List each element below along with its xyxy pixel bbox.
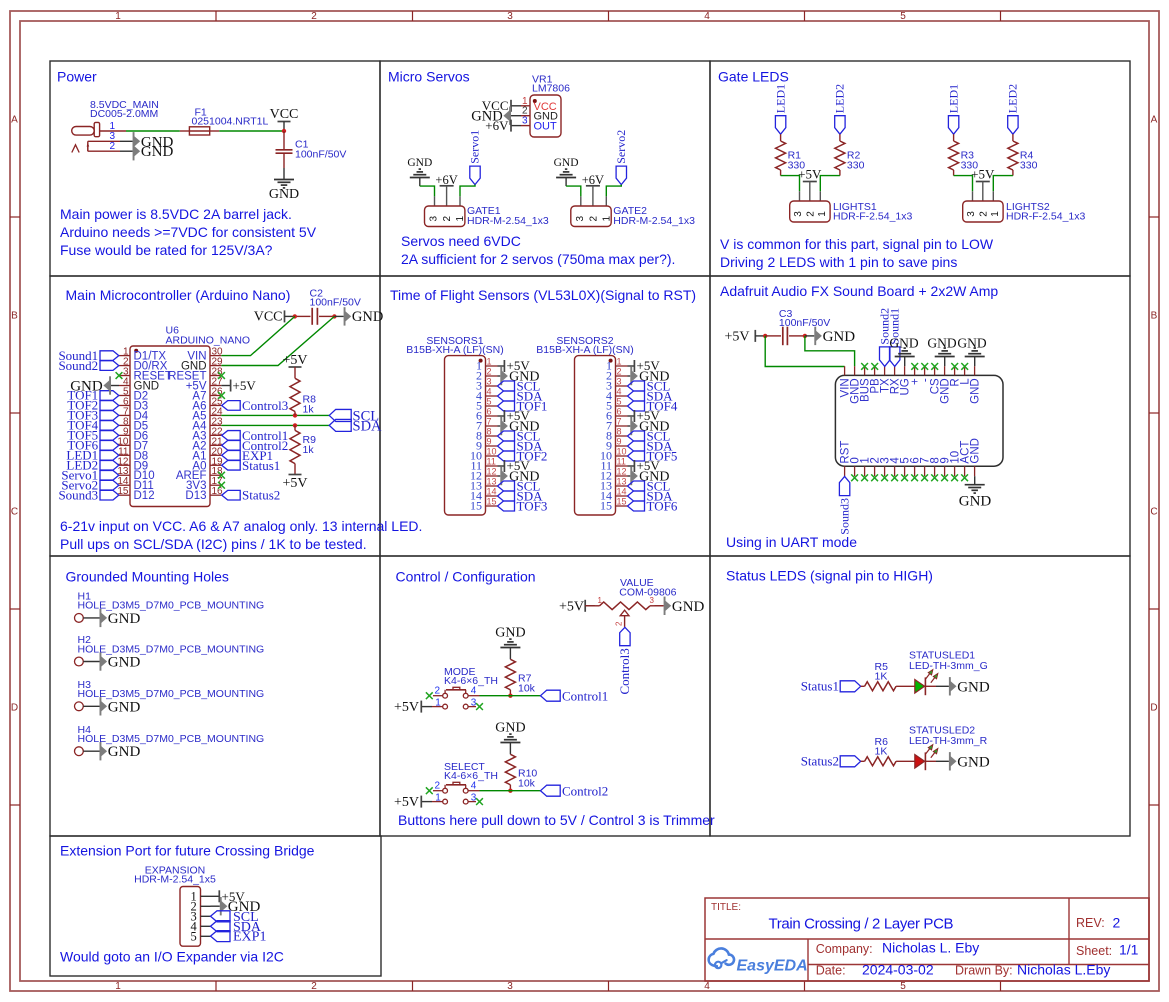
svg-text:4: 4: [487, 387, 492, 397]
net flag Control1: [541, 690, 561, 701]
top pin BUS of U1: [864, 366, 866, 375]
wire R4 to LIGHTS2 pin1: [993, 176, 1013, 192]
svg-text:GND: GND: [554, 157, 579, 169]
net flag SDA SENSORS1 g1: [498, 391, 515, 401]
junction GND C2: [332, 314, 336, 318]
net flag Status1: [222, 460, 241, 470]
svg-text:D: D: [1150, 703, 1157, 714]
pin 28 RESET of U6: [210, 375, 221, 377]
svg-text:C: C: [1150, 507, 1157, 518]
pin1 stub MODE to +5V: [432, 706, 443, 708]
LED STATUSLED2 LED-TH-3mm_R: [909, 725, 988, 771]
pin 18 AREF of U6: [210, 474, 221, 476]
wire gnd to GATE1 pin3: [420, 186, 435, 196]
net flag SCL SENSORS2 g1: [628, 381, 645, 391]
svg-text:9: 9: [617, 437, 622, 447]
svg-text:5: 5: [191, 930, 197, 944]
pin 22 A3 of U6: [210, 434, 221, 436]
pin 5 of SENSORS2: [616, 405, 628, 407]
pin 15 D12 of U6: [119, 494, 130, 496]
connector LIGHTS2 HDR-F-2.54_1x3: [963, 201, 1086, 223]
wire R2 to LIGHTS1 pin1: [820, 176, 840, 192]
svg-text:GND: GND: [970, 438, 982, 464]
no-connect X bottom: [921, 474, 928, 481]
resistor R8 1k: [294, 367, 296, 378]
svg-text:TOF6: TOF6: [647, 499, 678, 514]
svg-text:Status1: Status1: [801, 679, 839, 694]
junction C3 right: [803, 334, 807, 338]
ground flag SENSORS2 group3: [628, 475, 631, 477]
net flag Control3 at pin25: [222, 401, 241, 411]
svg-text:Control2: Control2: [562, 783, 608, 798]
pin 2 of SENSORS1: [486, 375, 498, 377]
svg-text:3: 3: [522, 116, 528, 127]
svg-text:C: C: [11, 507, 18, 518]
svg-text:2: 2: [588, 216, 599, 222]
pin 10 D7 of U6: [119, 444, 130, 446]
wire H2 to gnd: [83, 661, 99, 663]
svg-text:7: 7: [487, 417, 492, 427]
capacitor C1 100nF/50V: [276, 131, 347, 168]
power flag +5V below R9: [289, 474, 302, 476]
svg-text:2: 2: [442, 216, 453, 222]
ground flag STATUSLED2: [949, 752, 990, 770]
pin 8 of SENSORS1: [486, 435, 498, 437]
svg-text:GND: GND: [823, 329, 856, 345]
svg-text:GND: GND: [970, 378, 982, 404]
svg-text:+5V: +5V: [282, 353, 307, 368]
pin 4 of SENSORS2: [616, 395, 628, 397]
svg-text:12: 12: [487, 467, 497, 477]
ground symbol below C1: [274, 180, 294, 188]
svg-text:13: 13: [617, 477, 627, 487]
power flag +5V at EXPANSION pin1: [211, 895, 220, 897]
svg-text:GND: GND: [269, 187, 299, 202]
svg-text:2A sufficient for 2 servos (75: 2A sufficient for 2 servos (750ma max pe…: [401, 251, 675, 267]
ground flag at J1 pin 2: [133, 142, 174, 160]
net flag Control2: [222, 441, 241, 451]
resistor R3 330: [949, 141, 959, 170]
svg-text:12: 12: [617, 467, 627, 477]
svg-text:15: 15: [487, 497, 497, 507]
svg-text:8: 8: [617, 427, 622, 437]
no-connect X bottom: [901, 474, 908, 481]
svg-text:TITLE:: TITLE:: [711, 902, 741, 913]
svg-text:4: 4: [704, 11, 710, 22]
net flag Servo2: [100, 480, 119, 490]
ground symbol top: [944, 357, 946, 367]
pin 11 of SENSORS2: [616, 465, 628, 467]
svg-text:7: 7: [617, 417, 622, 427]
svg-text:Sound3: Sound3: [58, 487, 98, 502]
wire A4 to SDA: [221, 424, 329, 426]
no-connect X bottom: [961, 474, 968, 481]
svg-text:GND: GND: [108, 611, 141, 627]
net flag SCL SENSORS2 g2: [628, 431, 645, 441]
bottom pin 10 of U1: [954, 466, 956, 476]
svg-text:Servo2: Servo2: [614, 130, 628, 164]
svg-text:HOLE_D3M5_D7M0_PCB_MOUNTING: HOLE_D3M5_D7M0_PCB_MOUNTING: [78, 688, 265, 700]
svg-text:HDR-F-2.54_1x3: HDR-F-2.54_1x3: [1006, 211, 1086, 223]
mounting hole H1: [75, 591, 265, 623]
svg-text:11: 11: [487, 457, 496, 467]
svg-text:Status2: Status2: [242, 488, 280, 503]
svg-text:+5V: +5V: [394, 700, 419, 715]
pin 5 of EXPANSION: [201, 935, 211, 937]
svg-text:1: 1: [817, 211, 828, 217]
svg-text:2: 2: [615, 621, 624, 626]
connector EXPANSION HDR-M-2.54_1x5: [134, 865, 216, 947]
svg-text:+5V: +5V: [971, 167, 995, 182]
svg-text:0251004.NRT1L: 0251004.NRT1L: [192, 116, 269, 128]
net flag TOF2 SENSORS1: [498, 451, 515, 461]
pin 10 of SENSORS1: [486, 455, 498, 457]
svg-text:GND: GND: [141, 144, 174, 160]
svg-text:5: 5: [487, 397, 492, 407]
wire LED2 to R2: [839, 134, 841, 141]
junction node VCC: [282, 129, 286, 133]
pin 1 D1/TX of U6: [119, 355, 130, 357]
svg-text:Status2: Status2: [801, 754, 839, 769]
resistor R10 10k: [505, 754, 515, 785]
svg-text:15: 15: [470, 499, 482, 513]
wire LED to gnd: [925, 685, 936, 687]
no-connect X top: [861, 363, 868, 370]
wire LED2 to R4: [1012, 134, 1014, 141]
no-connect X bottom: [951, 474, 958, 481]
pin 2 D0/RX of U6: [119, 365, 130, 367]
top pin R of U1: [954, 366, 956, 375]
svg-text:4: 4: [471, 781, 477, 792]
net flag LED1: [775, 116, 785, 135]
pin 16 D13 of U6: [210, 494, 221, 496]
top pin RX of U1: [894, 366, 896, 375]
bottom pin 2 of U1: [874, 466, 876, 476]
pin 8 of SENSORS2: [616, 435, 628, 437]
pin 8 D5 of U6: [119, 424, 130, 426]
connector SENSORS2 B15B-XH-A: [536, 335, 633, 515]
net flag LED1: [948, 116, 958, 135]
junction R9 SDA: [293, 423, 297, 427]
svg-text:D: D: [11, 703, 18, 714]
svg-text:GND: GND: [407, 157, 432, 169]
bottom pin 3 of U1: [884, 466, 886, 476]
net flag LED2: [100, 460, 119, 470]
wire C1 to ground: [283, 168, 285, 180]
pin 13 of SENSORS2: [616, 485, 628, 487]
svg-text:1: 1: [115, 981, 121, 992]
svg-text:3: 3: [507, 11, 513, 22]
svg-text:GND: GND: [108, 654, 141, 670]
svg-text:Nicholas L.Eby: Nicholas L.Eby: [1017, 962, 1110, 978]
net flag TOF3 SENSORS1: [498, 501, 515, 511]
pin 3 of SENSORS1: [486, 385, 498, 387]
no-connect X at pin28: [218, 372, 225, 379]
svg-text:HDR-M-2.54_1x3: HDR-M-2.54_1x3: [613, 215, 695, 227]
svg-text:1: 1: [455, 216, 466, 222]
svg-text:10k: 10k: [518, 683, 536, 695]
svg-text:Date:: Date:: [816, 964, 846, 978]
net flag Control1: [222, 431, 241, 441]
svg-text:GND: GND: [108, 699, 141, 715]
wire LED to gnd: [925, 760, 936, 762]
resistor R6 1K: [865, 757, 897, 766]
svg-text:2: 2: [311, 981, 317, 992]
svg-text:Status LEDS (signal pin to HIG: Status LEDS (signal pin to HIGH): [726, 568, 933, 584]
top pin GND of U1: [974, 366, 976, 375]
net flag Sound1: [890, 347, 900, 367]
pin 6 of SENSORS1: [486, 415, 498, 417]
no-connect X bottom: [891, 474, 898, 481]
net flag SCL: [329, 409, 351, 421]
bottom pin 7 of U1: [924, 466, 926, 476]
pin 3 of EXPANSION: [201, 915, 211, 917]
ground flag at trimmer: [655, 605, 664, 607]
svg-text:1K: 1K: [875, 746, 888, 758]
svg-text:Sound2: Sound2: [58, 358, 98, 373]
resistor R1 330: [776, 141, 786, 170]
svg-text:15: 15: [600, 499, 612, 513]
svg-text:Pull ups on SCL/SDA (I2C) pins: Pull ups on SCL/SDA (I2C) pins / 1K to b…: [60, 536, 367, 552]
svg-text:EasyEDA: EasyEDA: [737, 958, 808, 975]
svg-text:11: 11: [617, 457, 626, 467]
pin 6 of SENSORS2: [616, 415, 628, 417]
bottom pin 0 of U1: [854, 466, 856, 476]
pin 17 3V3 of U6: [210, 484, 221, 486]
svg-text:GND: GND: [957, 335, 986, 350]
pin 4 GND of U6: [119, 385, 130, 387]
svg-text:Using in UART mode: Using in UART mode: [726, 534, 857, 550]
net flag LED2: [1008, 116, 1018, 135]
net flag TOF5 SENSORS2: [628, 451, 645, 461]
pin 12 of SENSORS2: [616, 475, 628, 477]
pin2 stub MODE: [433, 695, 443, 697]
pin 3 OUT of VR1: [521, 125, 530, 127]
pin 14 D11 of U6: [119, 484, 130, 486]
ground flag H2: [100, 652, 141, 670]
svg-text:LED2: LED2: [1006, 84, 1020, 113]
ground flag H3: [100, 697, 141, 715]
svg-text:Grounded Mounting Holes: Grounded Mounting Holes: [66, 569, 229, 585]
IC U6 ARDUINO_NANO: [130, 325, 250, 507]
svg-text:A: A: [11, 115, 18, 126]
pin 1 of J1: [100, 130, 126, 132]
pin 5 D2 of U6: [119, 394, 130, 396]
svg-text:+5V: +5V: [282, 476, 307, 491]
svg-text:4: 4: [704, 981, 710, 992]
svg-text:Time of Flight Sensors (VL53L0: Time of Flight Sensors (VL53L0X)(Signal …: [390, 287, 696, 303]
svg-text:GND: GND: [70, 378, 103, 394]
svg-text:1k: 1k: [303, 404, 315, 416]
svg-text:13: 13: [487, 477, 497, 487]
svg-text:2: 2: [1113, 915, 1121, 931]
svg-text:3: 3: [429, 216, 440, 222]
svg-text:1: 1: [990, 211, 1001, 217]
bottom pin 8 of U1: [934, 466, 936, 476]
net flag Sound1: [100, 351, 119, 361]
svg-text:D13: D13: [185, 490, 206, 502]
svg-text:REV:: REV:: [1076, 916, 1105, 930]
svg-text:5: 5: [617, 397, 622, 407]
pin 11 D8 of U6: [119, 454, 130, 456]
svg-text:HDR-M-2.54_1x3: HDR-M-2.54_1x3: [467, 215, 549, 227]
ground symbol top: [904, 357, 906, 367]
svg-text:Fuse would be rated for 125V/3: Fuse would be rated for 125V/3A?: [60, 242, 273, 258]
power flag +5V SENSORS2 group1: [628, 365, 635, 367]
svg-text:3: 3: [650, 596, 655, 605]
svg-text:LED1: LED1: [946, 84, 960, 113]
svg-text:4: 4: [471, 686, 477, 697]
wire H3 to gnd: [83, 705, 99, 707]
wire R3 to LIGHTS2 pin3: [954, 176, 973, 192]
svg-text:2: 2: [434, 780, 440, 791]
net flag SDA SENSORS2 g3: [628, 491, 645, 501]
net flag SDA SENSORS1 g2: [498, 441, 515, 451]
power flag +5V SENSORS1 group3: [498, 465, 505, 467]
pin 5 of SENSORS1: [486, 405, 498, 407]
svg-text:1: 1: [115, 11, 121, 22]
net flag Control2: [541, 785, 561, 796]
svg-text:Adafruit Audio FX Sound Board: Adafruit Audio FX Sound Board + 2x2W Amp: [720, 283, 998, 299]
pin 30 VIN of U6: [210, 355, 221, 357]
svg-text:A: A: [1151, 115, 1158, 126]
svg-text:1K: 1K: [875, 671, 888, 683]
wire +5V to VIN: [765, 336, 844, 367]
net flag Servo1: [100, 470, 119, 480]
connector SENSORS1 B15B-XH-A: [406, 335, 503, 515]
no-connect X bottom: [861, 474, 868, 481]
wire button to Control2: [480, 790, 541, 792]
net flag LED1: [100, 451, 119, 461]
svg-text:9: 9: [487, 437, 492, 447]
svg-text:Sheet:: Sheet:: [1076, 944, 1112, 958]
power flag +5V SENSORS2 group2: [628, 415, 635, 417]
svg-text:+5V: +5V: [559, 599, 584, 614]
button MODE K4-6x6_TH: [434, 666, 498, 709]
svg-text:2: 2: [805, 211, 816, 217]
pin 29 GND of U6: [210, 365, 221, 367]
svg-text:Buttons here pull down to 5V /: Buttons here pull down to 5V / Control 3…: [398, 812, 715, 828]
svg-text:B15B-XH-A (LF)(SN): B15B-XH-A (LF)(SN): [406, 344, 503, 356]
connector LIGHTS1 HDR-F-2.54_1x3: [790, 201, 913, 223]
LED STATUSLED1 LED-TH-3mm_G: [909, 650, 988, 696]
wire Status2 to R6: [861, 760, 865, 762]
svg-text:VCC: VCC: [254, 310, 283, 325]
no-connect X at pin3: [116, 372, 123, 379]
svg-text:GND: GND: [927, 335, 956, 350]
net flag TOF1 SENSORS1: [498, 401, 515, 411]
ground flag SENSORS1 group2: [498, 425, 501, 427]
svg-text:3: 3: [966, 211, 977, 217]
pin 4 of EXPANSION: [201, 925, 211, 927]
net flag EXP1 extension: [211, 931, 231, 942]
ground flag SENSORS1 group3: [498, 475, 501, 477]
svg-text:+5V: +5V: [233, 378, 257, 393]
no-connect X bottom: [911, 474, 918, 481]
no-connect X top: [911, 363, 918, 370]
no-connect X bottom: [881, 474, 888, 481]
wire R6 to LED: [896, 760, 915, 762]
svg-text:2: 2: [978, 211, 989, 217]
net flag TOF5: [100, 431, 119, 441]
net flag Control3 trimmer: [620, 627, 630, 645]
wire Servo1 to GATE1 pin1: [460, 185, 475, 197]
svg-text:B15B-XH-A (LF)(SN): B15B-XH-A (LF)(SN): [536, 344, 633, 356]
svg-text:TOF3: TOF3: [517, 499, 548, 514]
pin 26 A7 of U6: [210, 394, 221, 396]
svg-text:14: 14: [487, 487, 497, 497]
net flag SDA SENSORS2 g1: [628, 391, 645, 401]
net flag TOF2: [100, 401, 119, 411]
connector GATE2 HDR-M-2.54_1x3: [571, 205, 695, 227]
ground flag SENSORS1 group1: [498, 375, 501, 377]
svg-text:GND: GND: [672, 599, 705, 615]
fuse F1 0251004.NRT1L: [180, 107, 269, 136]
power flag +6V at VR1 pin3: [511, 125, 521, 127]
pin 15 of SENSORS2: [616, 505, 628, 507]
svg-text:HOLE_D3M5_D7M0_PCB_MOUNTING: HOLE_D3M5_D7M0_PCB_MOUNTING: [78, 600, 265, 612]
svg-text:3: 3: [487, 377, 492, 387]
net flag EXP1: [222, 451, 241, 461]
svg-text:Nicholas L. Eby: Nicholas L. Eby: [882, 940, 979, 956]
no-connect X at pin26: [218, 392, 225, 399]
net flag TOF1: [100, 391, 119, 401]
pin4 stub SELECT: [468, 790, 479, 792]
wire Servo2 to GATE2 pin1: [606, 185, 621, 197]
connector GATE1 HDR-M-2.54_1x3: [425, 205, 549, 227]
pin 10 of SENSORS2: [616, 455, 628, 457]
svg-text:Main power is 8.5VDC 2A barrel: Main power is 8.5VDC 2A barrel jack.: [60, 206, 292, 222]
net flag Sound2: [880, 347, 890, 367]
trimmer VALUE COM-09806: [619, 577, 676, 599]
net flag SCL SENSORS1 g2: [498, 431, 515, 441]
net flag TOF4 SENSORS2: [628, 401, 645, 411]
no-connect X bottom: [941, 474, 948, 481]
svg-text:LED2: LED2: [833, 84, 847, 113]
pin 3 RESET of U6: [119, 375, 130, 377]
pin 20 A1 of U6: [210, 454, 221, 456]
net flag SCL extension: [211, 911, 231, 922]
power flag +5V SENSORS1 group2: [498, 415, 505, 417]
wire R5 to LED: [896, 685, 915, 687]
top pin + of U1: [914, 366, 916, 375]
net flag Servo2: [616, 166, 626, 185]
svg-text:COM-09806: COM-09806: [619, 587, 676, 599]
trimmer wiper pin 2: [620, 610, 629, 616]
svg-text:LED1: LED1: [773, 84, 787, 113]
wire LED1 to R1: [780, 134, 782, 141]
svg-text:Control3: Control3: [242, 398, 288, 413]
wire LED1 to R3: [953, 134, 955, 141]
svg-text:Status1: Status1: [242, 458, 280, 473]
svg-text:OUT: OUT: [534, 121, 558, 133]
pin 3 of SENSORS2: [616, 385, 628, 387]
svg-text:Extension Port for future Cros: Extension Port for future Crossing Bridg…: [60, 843, 315, 859]
ground flag at VR1 pin2: [511, 115, 521, 117]
net flag Status2: [222, 490, 241, 500]
svg-text:Power: Power: [57, 69, 97, 85]
capacitor C2 100nF/50V: [295, 288, 361, 325]
net flag TOF4: [100, 421, 119, 431]
bottom pin 1 of U1: [864, 466, 866, 476]
pin 6 D3 of U6: [119, 404, 130, 406]
top pin UG of U1: [904, 366, 906, 375]
svg-text:15: 15: [617, 497, 627, 507]
svg-text:330: 330: [847, 160, 865, 172]
svg-text:1: 1: [109, 121, 115, 132]
svg-text:Main Microcontroller (Arduino: Main Microcontroller (Arduino Nano): [66, 287, 291, 303]
pin3 stub SELECT: [468, 801, 476, 803]
